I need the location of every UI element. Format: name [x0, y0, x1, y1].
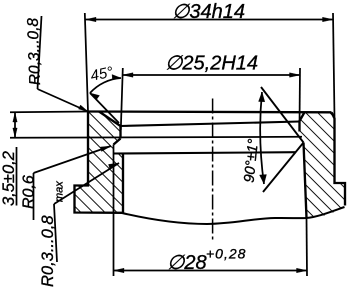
svg-text:+0,28: +0,28: [206, 246, 246, 262]
svg-text:90°±1°: 90°±1°: [242, 138, 263, 183]
svg-text:R0,6: R0,6: [21, 175, 38, 209]
svg-text:R0,3...0,8: R0,3...0,8: [39, 215, 57, 287]
svg-text:∅25,2H14: ∅25,2H14: [165, 53, 258, 75]
svg-text:max: max: [54, 181, 66, 202]
svg-text:∅28: ∅28: [167, 252, 207, 274]
svg-text:∅34h14: ∅34h14: [172, 1, 245, 23]
svg-text:3,5±0,2: 3,5±0,2: [0, 151, 18, 206]
svg-text:45°: 45°: [89, 63, 115, 84]
svg-text:R0,3...0,8: R0,3...0,8: [25, 17, 44, 85]
